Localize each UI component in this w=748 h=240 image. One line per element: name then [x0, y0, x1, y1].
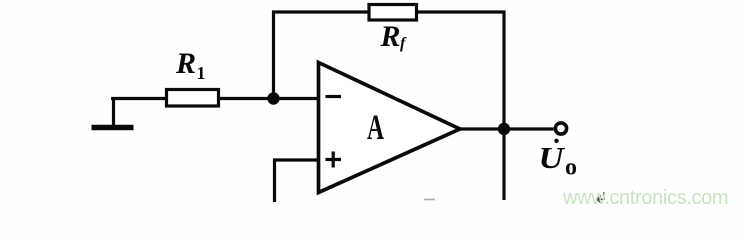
watermark [563, 187, 728, 210]
svg-text:A: A [367, 107, 384, 147]
svg-text:U: U [539, 140, 566, 175]
node: output junction [498, 123, 510, 135]
stray gray dash [424, 199, 435, 201]
wire: output [460, 127, 554, 130]
svg-text:R: R [175, 47, 196, 80]
wire: non-inverting input [275, 160, 319, 202]
resistor Rf [369, 5, 417, 21]
svg-text:f: f [400, 35, 407, 52]
terminal Uo [555, 123, 566, 134]
svg-text:1: 1 [197, 63, 206, 83]
pin + (non-inverting) [326, 152, 342, 168]
svg-text:o: o [565, 155, 577, 181]
return-arrow glyph over watermark [597, 192, 604, 202]
svg-text:R: R [380, 20, 401, 53]
ground [92, 125, 134, 131]
resistor R1 [167, 90, 219, 107]
pin - (inverting) [326, 95, 342, 98]
op-amp A [319, 63, 461, 193]
wire: ground stub [112, 97, 115, 126]
wire: feedback loop top + left vertical + right vertical [274, 12, 505, 200]
node: inverting input junction [267, 92, 279, 104]
wire: inverting input horizontal [111, 97, 318, 100]
